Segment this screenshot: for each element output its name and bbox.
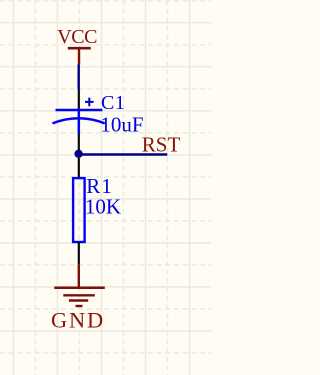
C1 positive plate — [56, 109, 103, 112]
wire node to RST — [79, 153, 168, 156]
wire VCC to C1 — [77, 65, 79, 90]
VCC bar — [68, 47, 91, 50]
GND bar 3 — [69, 299, 88, 301]
svg-text:C1: C1 — [101, 92, 125, 114]
capacitor C1 — [53, 90, 144, 151]
junction node — [74, 150, 82, 158]
C1 center stem — [78, 110, 81, 134]
VCC stem — [78, 48, 80, 64]
C1 plus polarity mark — [85, 98, 94, 107]
resistor R1 — [73, 158, 121, 264]
GND stem — [78, 264, 80, 287]
GND bar 1 — [54, 287, 105, 290]
svg-text:10uF: 10uF — [100, 113, 143, 137]
C1 negative plate arc — [53, 118, 105, 123]
power port VCC — [57, 26, 97, 65]
svg-text:10K: 10K — [85, 195, 121, 219]
GND bar 2 — [63, 294, 95, 296]
R1 pin 1 — [78, 158, 80, 178]
C1 pin 2 — [78, 134, 80, 151]
R1 pin 2 — [78, 242, 80, 264]
GND bar 4 — [76, 305, 83, 307]
svg-text:GND: GND — [51, 308, 105, 333]
C1 pin 1 — [78, 90, 80, 111]
svg-text:RST: RST — [142, 132, 181, 156]
svg-text:VCC: VCC — [57, 26, 97, 48]
power port GND — [51, 264, 105, 332]
R1 body — [73, 178, 85, 242]
